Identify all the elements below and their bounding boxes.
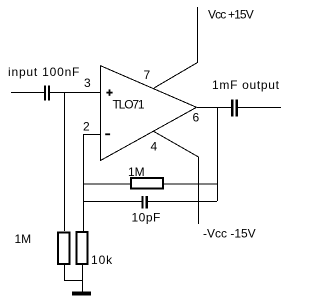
- svg-text:4: 4: [151, 140, 158, 154]
- svg-text:TLO71: TLO71: [113, 98, 145, 112]
- svg-text:1mF output: 1mF output: [212, 78, 280, 92]
- svg-text:10pF: 10pF: [132, 211, 161, 225]
- svg-text:3: 3: [84, 76, 91, 90]
- svg-text:7: 7: [144, 68, 151, 82]
- svg-text:2: 2: [83, 120, 90, 134]
- svg-text:1M: 1M: [128, 165, 145, 179]
- svg-text:-Vcc -15V: -Vcc -15V: [203, 227, 256, 241]
- svg-text:Vcc +15V: Vcc +15V: [208, 8, 254, 22]
- svg-text:input 100nF: input 100nF: [8, 65, 80, 79]
- svg-text:6: 6: [193, 111, 200, 125]
- svg-text:1M: 1M: [15, 232, 32, 246]
- svg-text:10k: 10k: [91, 253, 113, 267]
